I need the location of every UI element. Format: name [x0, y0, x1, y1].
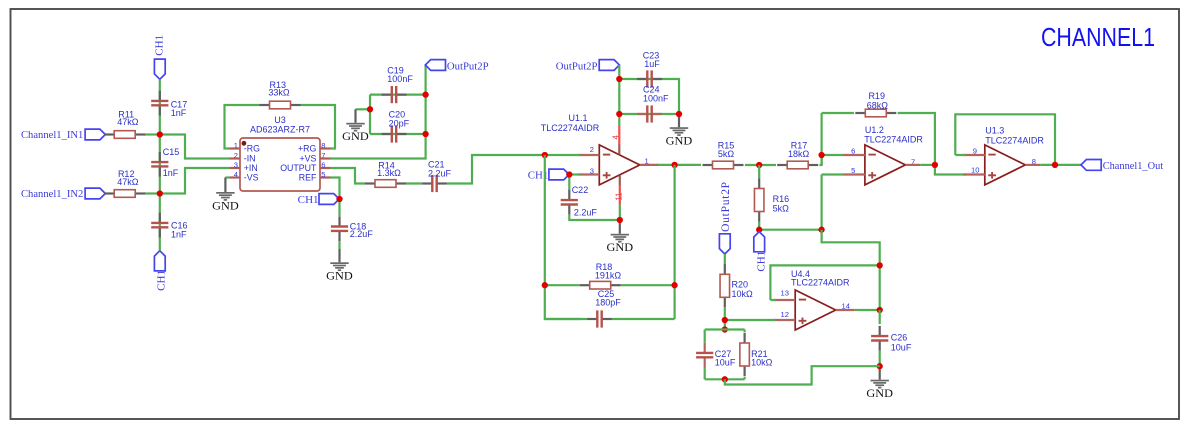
svg-text:5kΩ: 5kΩ: [718, 149, 735, 159]
svg-text:CH1: CH1: [156, 270, 168, 291]
svg-text:2.2uF: 2.2uF: [428, 168, 452, 178]
svg-text:CHANNEL1: CHANNEL1: [1041, 22, 1155, 52]
svg-text:U1.3: U1.3: [985, 126, 1004, 136]
svg-text:OutPut2P: OutPut2P: [720, 182, 732, 232]
svg-text:TLC2274AIDR: TLC2274AIDR: [791, 278, 850, 288]
svg-text:2.2uF: 2.2uF: [574, 207, 598, 217]
svg-text:9: 9: [973, 147, 977, 156]
svg-text:R20: R20: [732, 279, 749, 289]
svg-text:7: 7: [321, 151, 325, 160]
svg-text:+RG: +RG: [298, 144, 316, 154]
svg-text:CH1: CH1: [298, 194, 319, 206]
svg-text:8: 8: [321, 141, 325, 150]
svg-text:-RG: -RG: [244, 144, 260, 154]
svg-text:OutPut2P: OutPut2P: [447, 60, 489, 72]
svg-text:R19: R19: [868, 91, 885, 101]
svg-text:1nF: 1nF: [163, 168, 179, 178]
svg-text:5: 5: [321, 170, 325, 179]
svg-text:100nF: 100nF: [643, 93, 669, 103]
svg-text:11: 11: [614, 193, 623, 201]
svg-text:OutPut2P: OutPut2P: [556, 60, 598, 72]
svg-text:6: 6: [851, 147, 855, 156]
svg-text:180pF: 180pF: [595, 298, 621, 308]
svg-text:191kΩ: 191kΩ: [595, 270, 622, 280]
svg-text:CH1: CH1: [154, 35, 166, 56]
svg-text:-VS: -VS: [244, 173, 259, 183]
svg-text:1: 1: [234, 141, 238, 150]
svg-text:18kΩ: 18kΩ: [788, 149, 810, 159]
svg-text:TLC2274AIDR: TLC2274AIDR: [864, 134, 923, 144]
svg-text:10uF: 10uF: [891, 343, 912, 353]
svg-text:Channel1_IN2: Channel1_IN2: [21, 188, 83, 200]
svg-text:12: 12: [781, 310, 789, 319]
svg-text:10uF: 10uF: [715, 357, 736, 367]
svg-text:2.2uF: 2.2uF: [350, 229, 374, 239]
svg-text:Channel1_Out: Channel1_Out: [1103, 160, 1164, 172]
svg-text:GND: GND: [866, 386, 893, 400]
svg-text:4: 4: [611, 135, 620, 140]
svg-text:CH1: CH1: [756, 251, 768, 272]
svg-text:3: 3: [234, 160, 238, 169]
svg-text:+IN: +IN: [244, 163, 258, 173]
svg-text:47kΩ: 47kΩ: [117, 117, 139, 127]
svg-text:GND: GND: [212, 198, 239, 212]
svg-text:20pF: 20pF: [389, 118, 410, 128]
svg-text:R16: R16: [773, 194, 790, 204]
svg-text:10kΩ: 10kΩ: [732, 289, 754, 299]
svg-text:6: 6: [321, 160, 325, 169]
svg-text:10: 10: [971, 165, 979, 174]
svg-text:3: 3: [590, 167, 594, 176]
svg-text:2: 2: [234, 151, 238, 160]
svg-text:5kΩ: 5kΩ: [773, 204, 790, 214]
svg-text:AD623ARZ-R7: AD623ARZ-R7: [250, 124, 310, 134]
svg-text:C26: C26: [891, 333, 908, 343]
svg-text:-IN: -IN: [244, 154, 256, 164]
svg-text:1nF: 1nF: [171, 229, 187, 239]
svg-text:100nF: 100nF: [387, 74, 413, 84]
svg-text:GND: GND: [607, 240, 634, 254]
svg-text:5: 5: [851, 166, 855, 175]
svg-text:47kΩ: 47kΩ: [117, 177, 139, 187]
svg-text:REF: REF: [299, 173, 317, 183]
svg-text:10kΩ: 10kΩ: [751, 358, 773, 368]
svg-text:TLC2274AIDR: TLC2274AIDR: [541, 123, 600, 133]
svg-text:U1.1: U1.1: [568, 113, 587, 123]
svg-text:C15: C15: [163, 147, 180, 157]
svg-text:OUTPUT: OUTPUT: [280, 163, 317, 173]
svg-text:GND: GND: [326, 269, 353, 283]
svg-text:13: 13: [781, 289, 789, 298]
svg-text:1uF: 1uF: [644, 59, 660, 69]
svg-text:+VS: +VS: [300, 154, 317, 164]
svg-text:33kΩ: 33kΩ: [268, 88, 290, 98]
svg-text:4: 4: [234, 170, 238, 179]
svg-text:1.3kΩ: 1.3kΩ: [377, 168, 401, 178]
svg-text:GND: GND: [666, 134, 693, 148]
svg-text:GND: GND: [342, 129, 369, 143]
svg-text:1nF: 1nF: [171, 108, 187, 118]
svg-text:TLC2274AIDR: TLC2274AIDR: [985, 135, 1044, 145]
svg-text:C22: C22: [572, 185, 589, 195]
svg-text:2: 2: [590, 145, 594, 154]
svg-text:68kΩ: 68kΩ: [867, 101, 889, 111]
svg-text:Channel1_IN1: Channel1_IN1: [21, 129, 83, 141]
